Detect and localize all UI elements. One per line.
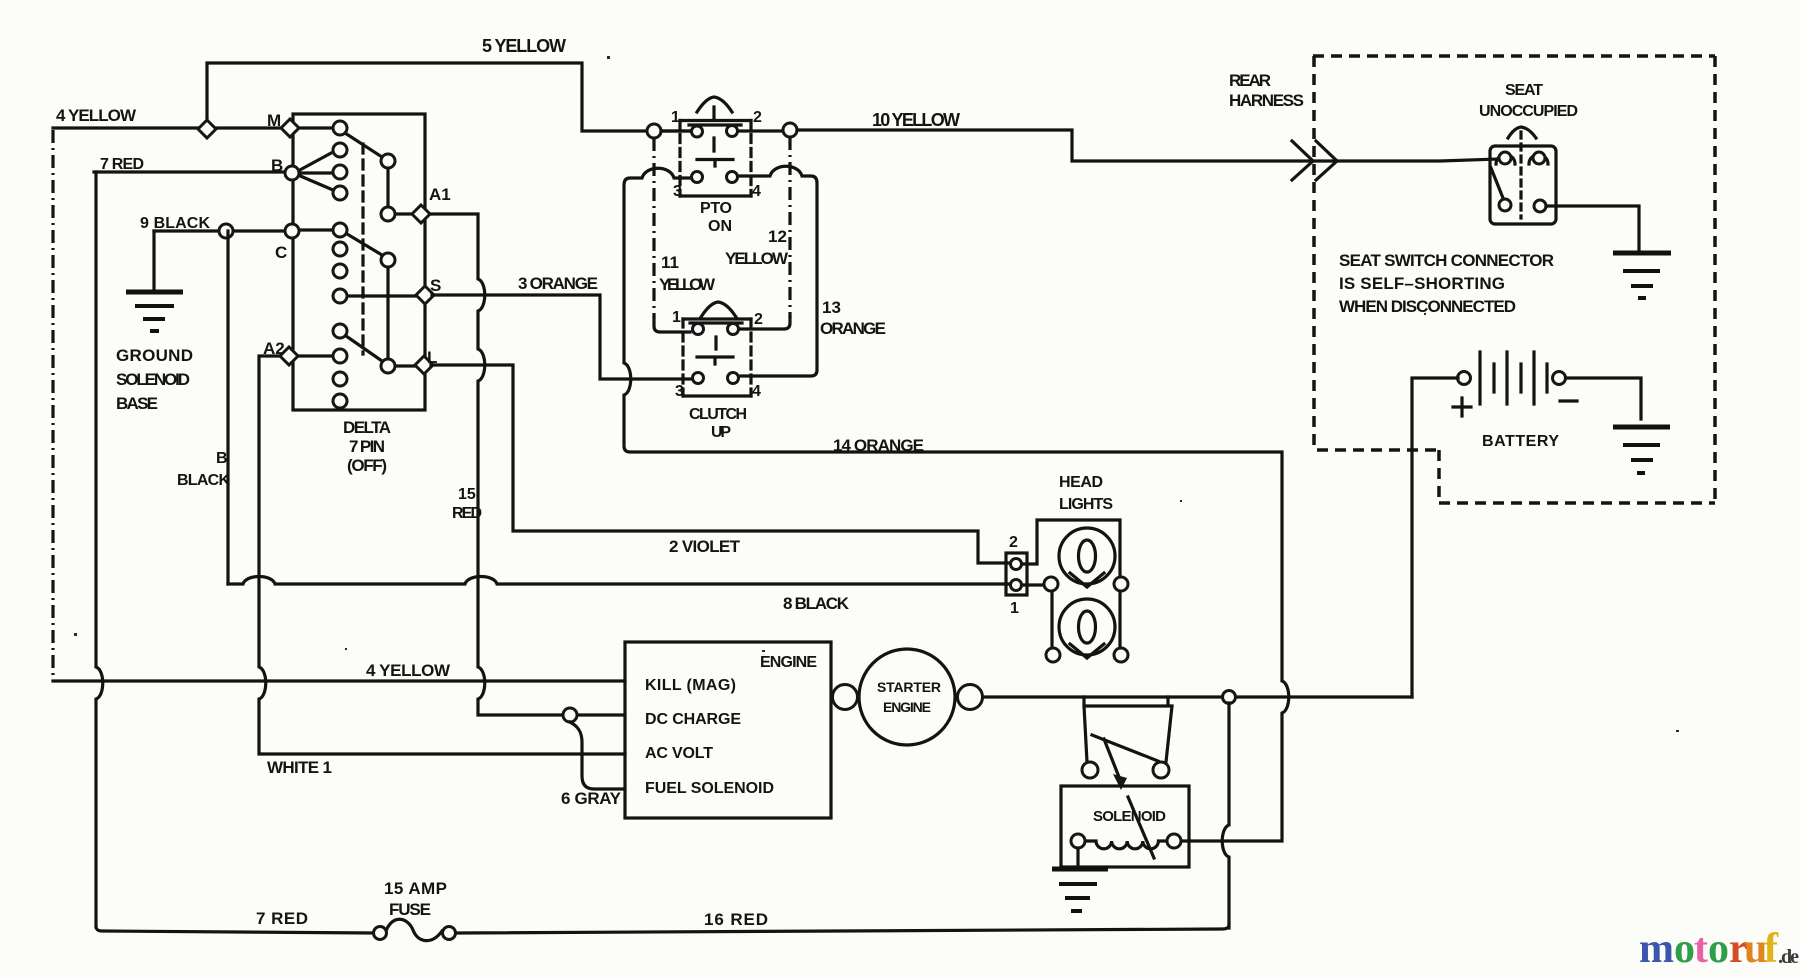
svg-text:12: 12 (768, 227, 787, 246)
seat switch retaining diagonal (1491, 168, 1503, 198)
svg-text:o: o (1674, 926, 1695, 972)
svg-text:1: 1 (672, 309, 681, 326)
wire battery plus down to starter wire (1412, 378, 1458, 697)
delta contact circles column (381, 154, 395, 373)
wire bottom 7 RED left of fuse (96, 927, 373, 933)
CLUTCH contact bar over pins 1-2 (690, 321, 742, 324)
wire left dash-dot harness border vertical (51, 130, 54, 681)
delta wire contact to A1 (395, 212, 417, 215)
switch DELTA 7 PIN box outline (293, 114, 425, 410)
svg-text:2: 2 (1009, 534, 1018, 551)
delta contact diagonal M pin to contact 1 (345, 133, 382, 157)
lamp 1 terminals (1044, 577, 1058, 591)
CLUTCH pin circles (693, 324, 704, 335)
lamp 2 terminals (1046, 648, 1060, 662)
delta contact link vertical 1 (386, 168, 389, 207)
ground symbol seat (1613, 253, 1671, 298)
svg-text:7 RED: 7 RED (256, 909, 308, 928)
wire starter to battery corner (983, 695, 1412, 698)
solenoid top cup (1084, 697, 1172, 762)
seat switch pin circles (1499, 152, 1511, 164)
wire bottom 16 RED right of fuse (456, 925, 1229, 933)
wire black vertical from 9-black node down to 8-black corner (226, 231, 229, 584)
svg-text:3: 3 (675, 383, 684, 400)
svg-text:C: C (275, 243, 287, 262)
fuse element (386, 919, 442, 940)
svg-text:4: 4 (752, 183, 761, 200)
rear harness arrow chevrons (1292, 141, 1337, 180)
svg-text:t: t (1694, 926, 1708, 972)
motoruf logo (1639, 926, 1799, 972)
wire 8 BLACK horizontal with humps over verticals, to headlight pin 1 (228, 577, 1010, 585)
solenoid contact circles (1082, 762, 1098, 778)
ground symbol solenoid (1052, 869, 1108, 911)
battery cell plates (1480, 352, 1547, 404)
solenoid actuator arrow (1104, 739, 1119, 777)
terminal B circle (285, 166, 299, 180)
CLUTCH plunger dash and tee (697, 337, 733, 364)
wire 7 RED from corner to delta B (94, 170, 285, 173)
battery minus sign (1560, 399, 1577, 402)
solenoid coil terminals (1071, 834, 1085, 848)
wire A2 to white-1 vertical, hop at 4-yellow, corner to WHITE 1 wire (259, 356, 625, 754)
starter right terminal (958, 685, 983, 710)
wire L to 2 VIOLET across to headlight pin 2 (431, 365, 1008, 563)
delta internal dashed line (361, 144, 364, 354)
wire 6 GRAY from node S-curve down into FUEL SOLENOID (570, 722, 625, 789)
wire 4 YELLOW middle long horizontal into engine KILL (53, 679, 625, 682)
lamp 2 bulb (1059, 599, 1115, 655)
node circle left of PTO pin 1 (647, 124, 661, 138)
svg-text:DC CHARGE: DC CHARGE (645, 711, 741, 728)
svg-text:PTO: PTO (700, 200, 732, 217)
svg-text:A1: A1 (429, 185, 451, 204)
svg-text:SEAT: SEAT (1505, 82, 1543, 99)
wire battery minus to ground (1566, 378, 1641, 419)
svg-text:9 BLACK: 9 BLACK (140, 215, 210, 232)
svg-text:ENGINE: ENGINE (883, 699, 931, 715)
solenoid actuator diagonal lower (1128, 797, 1154, 858)
svg-text:m: m (1639, 926, 1674, 972)
delta contact link vertical 2 (386, 267, 389, 359)
svg-text:11: 11 (661, 253, 679, 272)
delta pin circles column (333, 121, 347, 408)
wire PTO pin4 shoulder down outer-right 13 ORANGE to clutch pin 4 (739, 166, 817, 376)
svg-text:7 PIN: 7 PIN (349, 437, 385, 456)
wire PTO pin3 shoulder down outer-left to 14 ORANGE across, down to solenoid coil wire (624, 168, 1289, 841)
node circle on 9-black wire (219, 224, 233, 238)
terminal L diamond (415, 356, 433, 374)
terminal C circle (285, 224, 299, 238)
wire 12 YELLOW inner-right dash-dot from node to clutch pin 2 (788, 137, 791, 318)
svg-text:15 AMP: 15 AMP (384, 879, 447, 898)
svg-text:WHITE 1: WHITE 1 (267, 758, 332, 777)
svg-text:4: 4 (752, 383, 761, 400)
solenoid coil (1085, 841, 1167, 849)
lamp 1 holder vee (1070, 573, 1104, 587)
svg-text:B: B (216, 450, 228, 467)
node circle right of PTO pin 2 (783, 123, 797, 137)
svg-text:IS SELF–SHORTING: IS SELF–SHORTING (1339, 274, 1505, 293)
wire 16-RED vertical from node down to bottom wire, hop at coil wire (1222, 703, 1229, 928)
seat switch shorting arcs over top pins (1496, 155, 1548, 164)
svg-text:AC VOLT: AC VOLT (645, 745, 713, 762)
svg-text:2 VIOLET: 2 VIOLET (669, 537, 741, 556)
terminal A1 diamond (412, 205, 430, 223)
delta wire S row (347, 294, 419, 297)
svg-text:SOLENOID: SOLENOID (116, 370, 190, 389)
ground symbol battery (1613, 427, 1670, 473)
svg-text:HEAD: HEAD (1059, 474, 1103, 491)
svg-text:FUSE: FUSE (389, 900, 431, 919)
delta wire M row (296, 126, 333, 129)
node circle on starter wire (1223, 691, 1236, 704)
delta B fan wires (298, 152, 333, 190)
svg-text:4 YELLOW: 4 YELLOW (56, 106, 137, 125)
wire seat switch to ground (1546, 206, 1639, 251)
PTO contact bar over pins 1-2 (689, 123, 741, 126)
wire lamp left side vertical (1050, 591, 1053, 648)
wire headlight pin2 up over to lamp housing (1022, 520, 1120, 648)
delta contact diagonal C pin to contact (347, 234, 382, 255)
delta wire contact to L (395, 364, 417, 367)
svg-text:YELLOW: YELLOW (725, 249, 789, 268)
wire S 3 ORANGE to clutch pin 3 (432, 295, 690, 379)
engine box (625, 642, 831, 818)
starter left terminal (833, 685, 858, 710)
wire 9 BLACK horizontal to delta C (154, 229, 287, 232)
solenoid box (1061, 786, 1189, 867)
svg-text:ORANGE: ORANGE (820, 319, 886, 338)
svg-text:4 YELLOW: 4 YELLOW (366, 661, 451, 680)
svg-text:f: f (1764, 926, 1779, 972)
terminal A2 diamond (280, 347, 298, 365)
svg-text:A2: A2 (263, 339, 285, 358)
svg-text:ENGINE: ENGINE (760, 654, 817, 671)
lamp 1 filament (1079, 540, 1096, 572)
wire A1 down 15-RED with hops, corner to DC CHARGE (430, 214, 625, 715)
svg-text:UP: UP (711, 424, 731, 441)
svg-text:.de: .de (1778, 946, 1799, 968)
svg-text:8 BLACK: 8 BLACK (783, 594, 850, 613)
svg-text:S: S (430, 276, 441, 295)
svg-text:1: 1 (671, 109, 680, 126)
battery plus sign (1453, 398, 1471, 416)
svg-text:B: B (271, 156, 283, 175)
fuse terminals (374, 927, 387, 940)
svg-text:REAR: REAR (1229, 71, 1271, 90)
svg-text:6 GRAY: 6 GRAY (561, 789, 622, 808)
PTO chevron actuator arc (697, 97, 732, 112)
svg-text:M: M (267, 111, 281, 130)
delta wire C row (299, 228, 334, 231)
wire 10 YELLOW from right node stepping down to seat connector (797, 130, 1499, 161)
wire PTO pin2 to right node (737, 129, 783, 132)
lamp 1 bulb (1059, 528, 1115, 584)
solenoid switch blade (1092, 735, 1158, 761)
wire 5 YELLOW from node on 4-yellow up and across to PTO pin 1 (207, 63, 692, 131)
svg-text:o: o (1708, 926, 1729, 972)
svg-text:RED: RED (452, 505, 482, 522)
svg-text:3 ORANGE: 3 ORANGE (518, 274, 598, 293)
delta wire A2 row (296, 354, 333, 357)
PTO pin circles (692, 126, 703, 137)
headlight connector box (1006, 553, 1027, 595)
svg-text:14 ORANGE: 14 ORANGE (833, 436, 924, 455)
wire headlight pin1 to lamp1 left terminal (1022, 583, 1045, 586)
seat switch center dashed line (1519, 132, 1522, 218)
svg-text:FUEL SOLENOID: FUEL SOLENOID (645, 780, 774, 797)
svg-text:HARNESS: HARNESS (1229, 91, 1304, 110)
svg-text:1: 1 (1010, 600, 1019, 617)
svg-text:UNOCCUPIED: UNOCCUPIED (1479, 103, 1578, 120)
scan speckles (74, 56, 1679, 732)
svg-text:SOLENOID: SOLENOID (1093, 808, 1166, 825)
svg-text:10 YELLOW: 10 YELLOW (872, 110, 960, 130)
delta contact diagonal A2-row pin to contact L (346, 336, 382, 361)
lamp 2 holder vee (1070, 644, 1104, 658)
wire 4 YELLOW top-left horizontal to delta M (53, 126, 284, 129)
wire RED vertical down left side to bottom 7-RED wire, hop at 4-yellow (96, 172, 103, 927)
svg-text:(OFF): (OFF) (347, 456, 387, 475)
svg-text:YELLOW: YELLOW (659, 275, 716, 294)
svg-text:ON: ON (708, 218, 732, 235)
terminal M diamond (281, 119, 299, 137)
svg-text:CLUTCH: CLUTCH (689, 406, 747, 423)
svg-text:16 RED: 16 RED (704, 910, 768, 929)
switch PTO box (680, 121, 751, 197)
svg-text:13: 13 (822, 298, 841, 317)
svg-text:SEAT SWITCH CONNECTOR: SEAT SWITCH CONNECTOR (1339, 251, 1554, 270)
PTO plunger dashes and tee (697, 107, 733, 166)
switch CLUTCH box (683, 319, 751, 396)
terminal S diamond (416, 286, 434, 304)
battery terminal circles (1458, 372, 1471, 385)
svg-text:3: 3 (673, 183, 682, 200)
solenoid left pin stem to box bottom (1076, 848, 1079, 866)
svg-text:15: 15 (458, 486, 476, 503)
svg-text:BATTERY: BATTERY (1482, 433, 1559, 450)
svg-text:STARTER: STARTER (877, 679, 941, 695)
node junction diamond on 4-yellow (198, 120, 216, 138)
CLUTCH chevron actuator arc (701, 302, 736, 317)
wire ground stem from 9-black (152, 231, 155, 290)
dashed rear-harness boundary box (1313, 56, 1715, 503)
ground solenoid base symbol (126, 292, 183, 331)
svg-text:LIGHTS: LIGHTS (1059, 496, 1113, 513)
svg-text:5 YELLOW: 5 YELLOW (482, 36, 566, 56)
svg-text:GROUND: GROUND (116, 346, 193, 365)
starter engine circle (859, 649, 955, 745)
wire 11 YELLOW inner-left dash-dot from node to clutch pin 1 (652, 138, 655, 318)
svg-text:7 RED: 7 RED (100, 156, 144, 173)
svg-text:BASE: BASE (116, 394, 158, 413)
headlight connector pins (1011, 559, 1022, 570)
wire node to PTO pin1 (661, 129, 692, 132)
svg-text:2: 2 (753, 109, 762, 126)
svg-text:2: 2 (754, 311, 763, 328)
seat switch chevron actuator (1508, 127, 1536, 138)
svg-text:WHEN DISCONNECTED: WHEN DISCONNECTED (1339, 297, 1516, 316)
svg-text:BLACK: BLACK (177, 472, 230, 489)
seat switch connector box (1490, 146, 1556, 224)
node circle on DC CHARGE wire (563, 708, 577, 722)
svg-text:DELTA: DELTA (343, 418, 391, 437)
svg-text:KILL (MAG): KILL (MAG) (645, 677, 736, 694)
lamp 2 filament (1079, 611, 1096, 643)
